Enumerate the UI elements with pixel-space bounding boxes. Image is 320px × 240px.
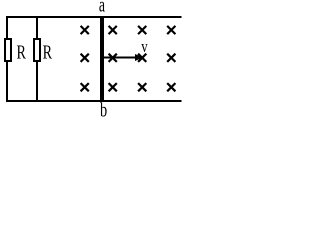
svg-text:b: b xyxy=(100,98,107,120)
svg-text:v: v xyxy=(141,38,148,56)
svg-text:R: R xyxy=(16,41,26,63)
svg-text:a: a xyxy=(99,0,105,16)
svg-text:R: R xyxy=(43,41,53,63)
